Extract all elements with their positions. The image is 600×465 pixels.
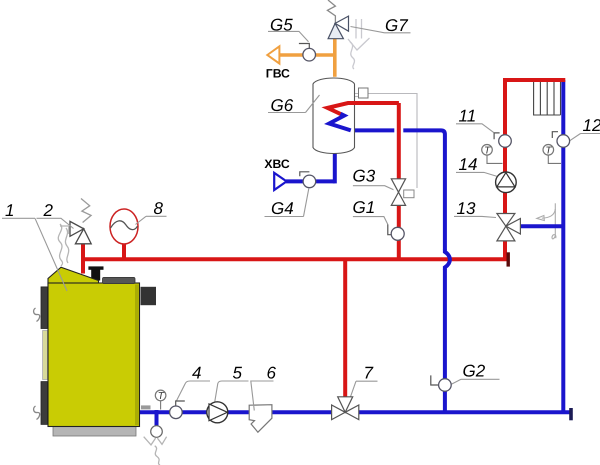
svg-text:4: 4 (192, 363, 201, 382)
svg-text:G5: G5 (270, 15, 293, 34)
svg-text:G7: G7 (385, 16, 408, 35)
svg-text:2: 2 (43, 201, 54, 220)
svg-text:G4: G4 (271, 199, 294, 218)
svg-text:13: 13 (457, 199, 476, 218)
svg-text:11: 11 (459, 107, 477, 126)
svg-text:T: T (158, 391, 165, 402)
svg-text:8: 8 (154, 199, 164, 218)
svg-text:ХВС: ХВС (264, 157, 289, 171)
svg-text:T: T (545, 145, 552, 156)
svg-text:G2: G2 (463, 362, 486, 381)
svg-text:G3: G3 (353, 166, 376, 185)
svg-text:ГВС: ГВС (266, 67, 290, 81)
svg-text:14: 14 (459, 155, 478, 174)
svg-text:7: 7 (364, 364, 374, 383)
svg-text:5: 5 (233, 363, 243, 382)
svg-text:G6: G6 (271, 96, 294, 115)
svg-text:G1: G1 (353, 198, 376, 217)
svg-text:12: 12 (583, 116, 600, 135)
svg-text:6: 6 (267, 363, 277, 382)
svg-text:T: T (484, 145, 491, 156)
svg-text:1: 1 (5, 201, 14, 220)
